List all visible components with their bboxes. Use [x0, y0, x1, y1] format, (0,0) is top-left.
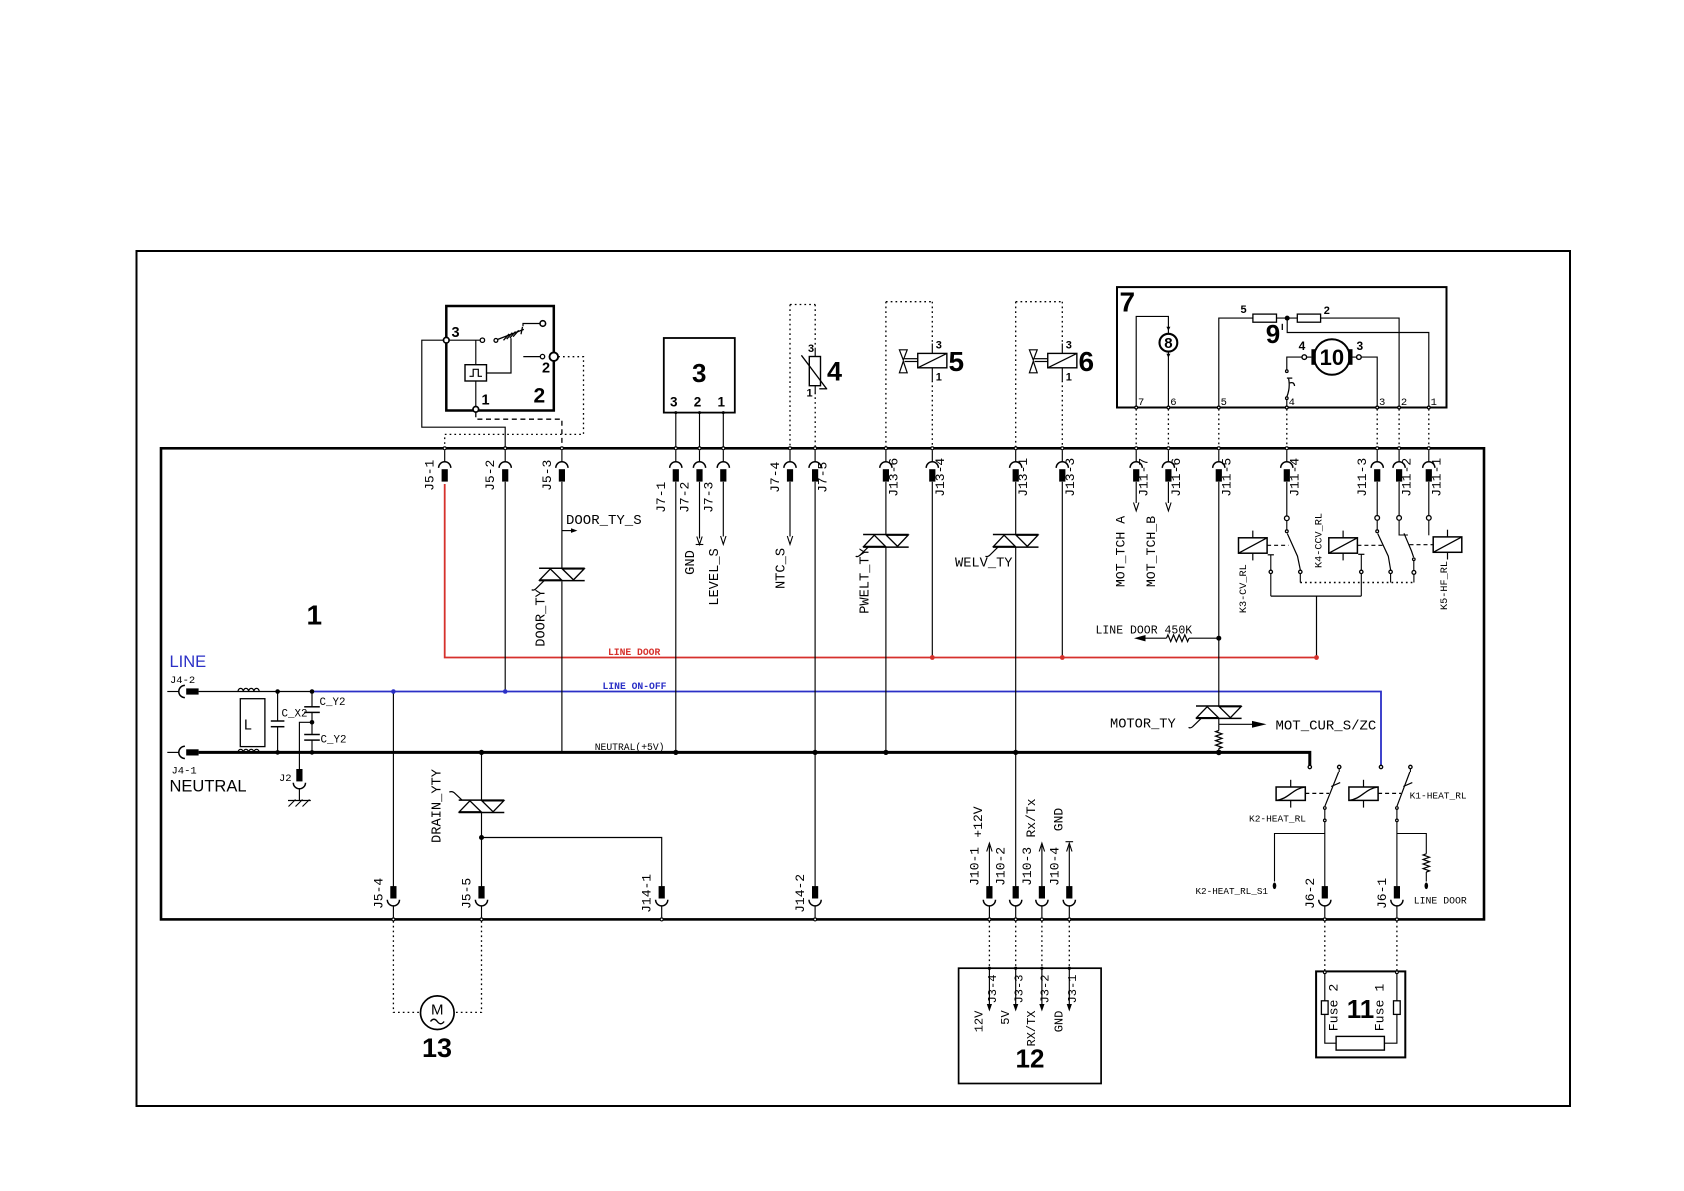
- svg-text:3: 3: [1066, 340, 1072, 352]
- junction J5-4 / LINE ON-OFF: [391, 689, 396, 694]
- pin J3-4 of component 12: [988, 967, 991, 970]
- pin 1 of component 3: [722, 411, 725, 414]
- node edge J11-2: [1398, 447, 1401, 450]
- svg-text:7: 7: [1138, 397, 1144, 409]
- relay coil K1-HEAT_RL: [1349, 787, 1378, 800]
- capacitor C_X2: [277, 692, 279, 722]
- wire NEUTRAL net: [199, 752, 1310, 765]
- component 4 (NTC sensor) dotted box: [789, 305, 791, 447]
- svg-text:11: 11: [1347, 994, 1375, 1024]
- svg-text:J3-1: J3-1: [1066, 975, 1080, 1004]
- wire J11-5 / MOTOR_TY column: [1218, 482, 1220, 706]
- svg-text:J5-3: J5-3: [540, 460, 555, 491]
- connector J5-3: [556, 450, 568, 481]
- wire J13-4 to LINE DOOR: [931, 482, 933, 658]
- connector J7-4: [784, 450, 796, 481]
- wire from comp2 terminal 2 to J5-1 (dotted): [445, 357, 584, 447]
- junction J7-1 / neutral: [673, 750, 678, 755]
- svg-text:J7-5: J7-5: [816, 462, 831, 493]
- connector J11-6: [1162, 450, 1174, 481]
- wire J7-5 to neutral to J14-2: [814, 482, 816, 888]
- wire J5-5 to pump (dotted): [456, 921, 482, 1012]
- svg-text:K2-HEAT_RL: K2-HEAT_RL: [1249, 814, 1306, 825]
- junction J7-5 / neutral: [813, 750, 818, 755]
- junction MOTOR_TY / neutral: [1216, 750, 1222, 756]
- svg-text:K4-CCV_RL: K4-CCV_RL: [1314, 513, 1325, 568]
- triac MOTOR_TY: [1196, 705, 1242, 707]
- svg-text:3: 3: [670, 395, 678, 410]
- svg-text:RX/TX: RX/TX: [1025, 1010, 1039, 1046]
- wire J6-2 to fuse box (dotted): [1324, 921, 1326, 971]
- svg-text:LEVEL_S: LEVEL_S: [708, 548, 723, 606]
- svg-text:12: 12: [1016, 1044, 1045, 1074]
- node edge J5-3: [560, 447, 563, 450]
- connector J2 (earth): [299, 722, 312, 769]
- connector J7-5: [809, 450, 821, 481]
- svg-text:2: 2: [534, 385, 546, 408]
- svg-text:LINE ON-OFF: LINE ON-OFF: [603, 681, 667, 692]
- connector J10-4: [1063, 886, 1075, 917]
- wire J5-3 / DOOR_TY column: [561, 482, 563, 568]
- connector J10-1: [983, 886, 995, 917]
- node edge J11-7: [1135, 447, 1138, 450]
- component 9 (resistor divider): [1219, 318, 1253, 406]
- signal MOT_TCH A at J11-7: [1135, 482, 1137, 503]
- wire J13-6 / PWELT_TY column: [885, 482, 887, 534]
- svg-text:NTC_S: NTC_S: [775, 548, 790, 589]
- svg-text:Rx/Tx: Rx/Tx: [1024, 798, 1039, 837]
- svg-text:Fuse 1: Fuse 1: [1373, 984, 1388, 1032]
- wire J7-1 to neutral: [675, 482, 677, 753]
- connector J11-5: [1213, 450, 1225, 481]
- svg-text:12V: 12V: [973, 1010, 987, 1032]
- node edge J7-4: [789, 447, 792, 450]
- junction J5-2 / LINE ON-OFF: [503, 689, 508, 694]
- junction DRAIN_YTY / neutral: [479, 750, 484, 755]
- svg-text:J13-6: J13-6: [886, 458, 901, 497]
- svg-text:J5-1: J5-1: [423, 460, 438, 491]
- svg-text:J3-3: J3-3: [1013, 975, 1027, 1004]
- svg-text:GND: GND: [684, 550, 699, 575]
- node edge J10-3: [1040, 918, 1043, 921]
- switch contact of K3 (under J11-4): [1284, 516, 1289, 521]
- connector J11-3: [1371, 450, 1383, 481]
- svg-text:GND: GND: [1053, 1011, 1067, 1033]
- connector J7-2: [693, 450, 705, 481]
- svg-text:J6-2: J6-2: [1303, 878, 1318, 909]
- connector J13-6: [880, 450, 892, 481]
- triac DRAIN_YTY: [459, 799, 505, 801]
- connector J5-1: [439, 450, 451, 481]
- svg-text:3: 3: [1379, 397, 1385, 409]
- connector J11-1: [1423, 450, 1435, 481]
- svg-text:J14-2: J14-2: [793, 874, 808, 913]
- wire J6-1 to fuse box (dotted): [1396, 921, 1398, 971]
- component 8 (tacho generator): [1136, 316, 1168, 406]
- component 5 (solenoid valve) dotted box: [885, 302, 887, 447]
- component 6 (solenoid valve) dotted box: [1015, 302, 1017, 447]
- pin 7 of component 7: [1135, 406, 1138, 409]
- main board box 1: [161, 448, 1484, 919]
- pin 2 of component 7: [1398, 406, 1401, 409]
- wire J5-4 to LINE ON-OFF: [392, 692, 394, 888]
- node edge J5-2: [504, 447, 507, 450]
- signal K2-HEAT_RL_S1 branch: [1275, 834, 1325, 882]
- signal GND at J7-2: [699, 482, 701, 539]
- wire J3-2 (dotted feed): [1041, 921, 1043, 968]
- svg-text:NEUTRAL(+5V): NEUTRAL(+5V): [595, 742, 665, 753]
- wires box7 pins to J11 connectors (dotted): [1135, 409, 1137, 447]
- junction 450K / J11-5 wire: [1216, 636, 1221, 641]
- wire from comp2 terminal 3 to J5-2 (solid): [422, 340, 505, 447]
- svg-text:J5-5: J5-5: [460, 878, 475, 909]
- connector J14-1: [656, 886, 668, 917]
- node edge J13-6: [884, 447, 887, 450]
- svg-text:3: 3: [1357, 339, 1364, 353]
- svg-text:1: 1: [718, 395, 726, 410]
- component 11 box (fuses): [1316, 971, 1405, 1057]
- wire J13-1 / WELV_TY column to J10-2: [1015, 482, 1017, 534]
- wire J3-3 (dotted feed): [1015, 921, 1017, 968]
- svg-text:LINE DOOR: LINE DOOR: [608, 647, 661, 658]
- node edge J13-3: [1061, 447, 1064, 450]
- signal GND at J10-4: [1068, 846, 1070, 888]
- svg-text:J13-1: J13-1: [1016, 458, 1031, 497]
- svg-text:C_Y2: C_Y2: [321, 735, 347, 747]
- ground symbol: [288, 800, 311, 802]
- svg-text:J5-2: J5-2: [483, 460, 498, 491]
- svg-text:GND: GND: [1052, 808, 1067, 832]
- svg-text:8: 8: [1164, 335, 1172, 352]
- svg-text:13: 13: [422, 1033, 452, 1063]
- node 1 terminal of component 2: [473, 407, 479, 413]
- svg-text:C_Y2: C_Y2: [320, 697, 346, 709]
- connector J7-3: [717, 450, 729, 481]
- NC contact / bus branch left of J11-3 switch: [1358, 553, 1364, 555]
- connector J13-4: [926, 450, 938, 481]
- NC contact / bus branch left of J11-4 switch: [1268, 554, 1274, 556]
- svg-text:J11-6: J11-6: [1169, 458, 1184, 497]
- NTC resistor symbol of component 4: [814, 348, 816, 357]
- svg-text:DOOR_TY_S: DOOR_TY_S: [566, 513, 642, 529]
- node edge J11-4: [1285, 447, 1288, 450]
- component 2 (door lock) box: [446, 306, 554, 411]
- pin 5 of component 7: [1217, 406, 1220, 409]
- connector J6-2: [1319, 886, 1331, 917]
- node edge J11-6: [1167, 447, 1170, 450]
- node edge J6-1: [1395, 918, 1398, 921]
- svg-text:K2-HEAT_RL_S1: K2-HEAT_RL_S1: [1195, 886, 1268, 897]
- node edge J11-1: [1427, 447, 1430, 450]
- signal tap DOOR_TY_S: [562, 530, 571, 532]
- connector J5-4: [387, 886, 399, 917]
- fuse element (main): [1336, 1036, 1384, 1050]
- svg-text:4: 4: [827, 357, 842, 387]
- switch contact of K1: [1409, 765, 1412, 768]
- node LINE ON-OFF end contact (K1 switch): [1379, 765, 1382, 768]
- pin J3-3 of component 12: [1014, 967, 1017, 970]
- svg-text:5: 5: [1240, 304, 1246, 316]
- svg-text:J7-1: J7-1: [654, 482, 669, 513]
- svg-text:1: 1: [1431, 397, 1437, 409]
- svg-text:PWELT_TY: PWELT_TY: [859, 548, 874, 614]
- svg-text:1: 1: [936, 372, 942, 384]
- component 13 (drain pump motor): [421, 996, 455, 1030]
- svg-text:LINE DOOR: LINE DOOR: [1414, 896, 1467, 907]
- connector J4-2: [167, 685, 198, 697]
- node edge J6-2: [1323, 918, 1326, 921]
- junction WELV_TY / neutral: [1013, 750, 1018, 755]
- svg-text:2: 2: [1324, 305, 1330, 317]
- svg-text:1: 1: [307, 600, 323, 631]
- svg-text:6: 6: [1170, 397, 1176, 409]
- relay coil K5-HF_RL: [1433, 537, 1462, 552]
- wire J3-4 (dotted feed): [988, 921, 990, 968]
- wire J13-3 to LINE DOOR: [1061, 482, 1063, 658]
- pin 2 of component 3: [698, 411, 701, 414]
- switch contact of K2: [1338, 765, 1341, 768]
- node edge J7-5: [814, 447, 817, 450]
- triac DOOR_TY: [539, 567, 585, 569]
- svg-text:DRAIN_YTY: DRAIN_YTY: [431, 769, 446, 843]
- switch contact of K5 (under J11-2): [1397, 516, 1402, 521]
- node edge J7-1: [674, 447, 677, 450]
- connector J10-2: [1010, 886, 1022, 917]
- wire from comp2 terminal 1 to J5-3 (dashed): [476, 412, 562, 447]
- svg-text:6: 6: [1079, 346, 1095, 377]
- svg-text:2: 2: [542, 361, 550, 377]
- triac WELV_TY: [993, 534, 1039, 536]
- svg-text:MOT_TCH A: MOT_TCH A: [1114, 516, 1129, 587]
- svg-text:WELV_TY: WELV_TY: [955, 557, 1013, 572]
- wire J5-4 to pump (dotted): [393, 921, 419, 1012]
- resistor below MOTOR_TY: [1218, 724, 1220, 730]
- svg-text:2: 2: [1401, 397, 1407, 409]
- svg-text:J5-4: J5-4: [371, 878, 386, 909]
- node edge J13-4: [931, 447, 934, 450]
- component 7 box (motor unit): [1117, 287, 1447, 407]
- valve coil symbol of component 6: [1061, 344, 1063, 354]
- svg-text:NEUTRAL: NEUTRAL: [170, 778, 247, 796]
- connector J13-3: [1056, 450, 1068, 481]
- component 12 box (user interface connector): [959, 968, 1102, 1083]
- svg-text:J11-5: J11-5: [1219, 458, 1234, 497]
- svg-text:2: 2: [694, 395, 702, 410]
- connector J7-1: [670, 450, 682, 481]
- svg-text:J13-3: J13-3: [1063, 458, 1078, 497]
- node 2 terminal of component 2: [550, 352, 559, 361]
- connector J10-3: [1036, 886, 1048, 917]
- svg-text:J11-3: J11-3: [1355, 458, 1370, 497]
- node edge J13-1: [1014, 447, 1017, 450]
- svg-text:1: 1: [1066, 372, 1072, 384]
- pin J3-2 of component 12: [1040, 967, 1043, 970]
- wire LINE ON-OFF (blue): [312, 692, 1381, 766]
- svg-text:3: 3: [936, 340, 942, 352]
- svg-text:MOT_TCH_B: MOT_TCH_B: [1144, 516, 1159, 587]
- wire motor terminal 3 to pin 3: [1361, 357, 1377, 406]
- svg-text:1: 1: [482, 393, 490, 409]
- fuse Fuse 2: [1324, 974, 1326, 1001]
- svg-text:+12V: +12V: [971, 806, 986, 837]
- svg-text:J11-1: J11-1: [1429, 458, 1444, 497]
- svg-text:J14-1: J14-1: [640, 874, 655, 913]
- wire DRAIN_YTY column (J5-5): [481, 752, 483, 799]
- node 3 terminal of component 2: [444, 337, 450, 343]
- pin 4 of component 7: [1285, 406, 1288, 409]
- svg-text:MOT_CUR_S/ZC: MOT_CUR_S/ZC: [1276, 719, 1377, 735]
- wire J11-1 stub: [1426, 516, 1431, 521]
- wire NC-contact bus to LINE DOOR: [1271, 595, 1362, 597]
- svg-text:C_X2: C_X2: [282, 709, 308, 721]
- capacitor C_Y2 (upper): [311, 692, 313, 707]
- node edge J14-2: [814, 918, 817, 921]
- junction relay bus / LINE DOOR: [1314, 655, 1319, 660]
- PTC pulse element inside component 2: [465, 365, 487, 381]
- svg-text:7: 7: [1120, 287, 1136, 318]
- junction J5-5 / J14-1 branch: [479, 835, 484, 840]
- connector J13-1: [1010, 450, 1022, 481]
- triac PWELT_TY: [863, 534, 909, 536]
- wire NO-contact bus (dotted): [1299, 574, 1301, 583]
- junction J13-4 / LINE DOOR: [930, 655, 935, 660]
- node edge J5-4: [392, 918, 395, 921]
- relay coil K2-HEAT_RL: [1276, 787, 1305, 800]
- relay coil K3-CV_RL: [1239, 538, 1268, 553]
- signal tap MOT_CUR_S/ZC: [1218, 718, 1220, 724]
- svg-text:M: M: [431, 1002, 444, 1019]
- switch contact of K4 (under J11-3): [1375, 516, 1380, 521]
- svg-text:3: 3: [692, 358, 706, 388]
- signal MOT_TCH_B at J11-6: [1167, 482, 1169, 503]
- svg-text:K5-HF_RL: K5-HF_RL: [1440, 561, 1451, 610]
- valve coil symbol of component 5: [931, 344, 933, 354]
- svg-text:J10-2: J10-2: [994, 847, 1009, 886]
- relay coil K4-CCV_RL: [1329, 538, 1358, 553]
- svg-text:J10-4: J10-4: [1047, 847, 1062, 886]
- pin 3 of component 7: [1376, 406, 1379, 409]
- svg-text:3: 3: [452, 325, 460, 341]
- wire motor terminal 4 with centrifugal switch to pin 4: [1287, 357, 1302, 370]
- svg-text:J10-1: J10-1: [967, 847, 982, 886]
- svg-text:DOOR_TY: DOOR_TY: [535, 589, 550, 647]
- svg-text:J11-4: J11-4: [1287, 458, 1302, 497]
- svg-text:K1-HEAT_RL: K1-HEAT_RL: [1410, 791, 1467, 802]
- inductor L (common-mode choke): [238, 688, 259, 691]
- svg-text:J7-3: J7-3: [701, 482, 716, 513]
- svg-text:J11-7: J11-7: [1137, 458, 1152, 497]
- svg-text:J6-1: J6-1: [1375, 878, 1390, 909]
- signal NTC_S at J7-4: [789, 482, 791, 537]
- junction PWELT_TY / neutral: [883, 750, 888, 755]
- svg-text:K3-CV_RL: K3-CV_RL: [1239, 564, 1250, 613]
- node edge J5-5: [480, 918, 483, 921]
- signal LEVEL_S at J7-3: [722, 482, 724, 537]
- node edge J11-3: [1376, 447, 1379, 450]
- svg-text:4: 4: [1299, 339, 1306, 353]
- node edge J10-1: [988, 918, 991, 921]
- wire resistor to pin 2: [1321, 318, 1400, 406]
- connector J5-2: [499, 450, 511, 481]
- node edge J10-4: [1068, 918, 1071, 921]
- svg-text:J3-4: J3-4: [986, 975, 1000, 1004]
- svg-text:L: L: [244, 719, 253, 735]
- connector J11-4: [1281, 450, 1293, 481]
- svg-text:5V: 5V: [999, 1010, 1013, 1025]
- junction J13-3 / LINE DOOR: [1060, 655, 1065, 660]
- component 10 (motor): [1314, 339, 1350, 375]
- wire J5-2 to LINE ON-OFF: [504, 482, 506, 692]
- svg-text:5: 5: [1221, 397, 1227, 409]
- svg-text:Fuse 2: Fuse 2: [1327, 984, 1342, 1031]
- switch inside component 2: [449, 339, 480, 341]
- svg-text:J4-2: J4-2: [170, 675, 195, 687]
- node edge J14-1: [660, 918, 663, 921]
- svg-text:J7-2: J7-2: [678, 482, 693, 513]
- svg-text:J13-4: J13-4: [933, 458, 948, 497]
- pin 6 of component 7: [1167, 406, 1170, 409]
- pin 3 of component 3: [674, 411, 677, 414]
- capacitor C_Y2 (lower): [311, 722, 313, 734]
- svg-text:J7-4: J7-4: [768, 462, 783, 493]
- svg-text:J2: J2: [279, 773, 292, 785]
- signal +12V at J10-1: [988, 846, 990, 888]
- connector J11-7: [1130, 450, 1142, 481]
- svg-text:J3-2: J3-2: [1039, 975, 1053, 1004]
- svg-text:J11-2: J11-2: [1400, 458, 1415, 497]
- svg-text:10: 10: [1320, 345, 1344, 370]
- component 3 box: [664, 338, 735, 413]
- connector J14-2: [809, 886, 821, 917]
- connector J5-5: [475, 886, 487, 917]
- node neutral end contact (K2 switch): [1308, 765, 1311, 768]
- svg-text:J4-1: J4-1: [172, 766, 197, 778]
- node edge J5-1: [443, 447, 446, 450]
- wire resistor tap to pin 1: [1287, 318, 1429, 406]
- node edge J10-2: [1014, 918, 1017, 921]
- connector J11-2: [1393, 450, 1405, 481]
- node edge J11-5: [1217, 447, 1220, 450]
- signal Rx/Tx at J10-3: [1041, 846, 1043, 888]
- svg-text:J10-3: J10-3: [1020, 847, 1035, 886]
- wire J3-1 (dotted feed): [1068, 921, 1070, 968]
- svg-text:3: 3: [808, 343, 814, 355]
- svg-text:4: 4: [1289, 397, 1295, 409]
- svg-text:9: 9: [1266, 319, 1280, 349]
- pin J3-1 of component 12: [1068, 967, 1071, 970]
- svg-text:MOTOR_TY: MOTOR_TY: [1110, 718, 1176, 733]
- wire LINE entry segment: [199, 691, 312, 693]
- fuse Fuse 1: [1396, 974, 1398, 1001]
- connector J6-1: [1391, 886, 1403, 917]
- wire branch to J14-1: [482, 838, 662, 888]
- pin 1 of component 7: [1427, 406, 1430, 409]
- svg-text:1: 1: [807, 388, 813, 400]
- wire LINE DOOR (red): [445, 484, 1317, 658]
- node edge J7-2: [698, 447, 701, 450]
- svg-text:LINE: LINE: [170, 653, 207, 671]
- resistor + LINE DOOR pin branch at K1: [1397, 834, 1426, 854]
- svg-text:5: 5: [949, 346, 965, 377]
- connector J4-1: [167, 746, 198, 758]
- node edge J7-3: [722, 447, 725, 450]
